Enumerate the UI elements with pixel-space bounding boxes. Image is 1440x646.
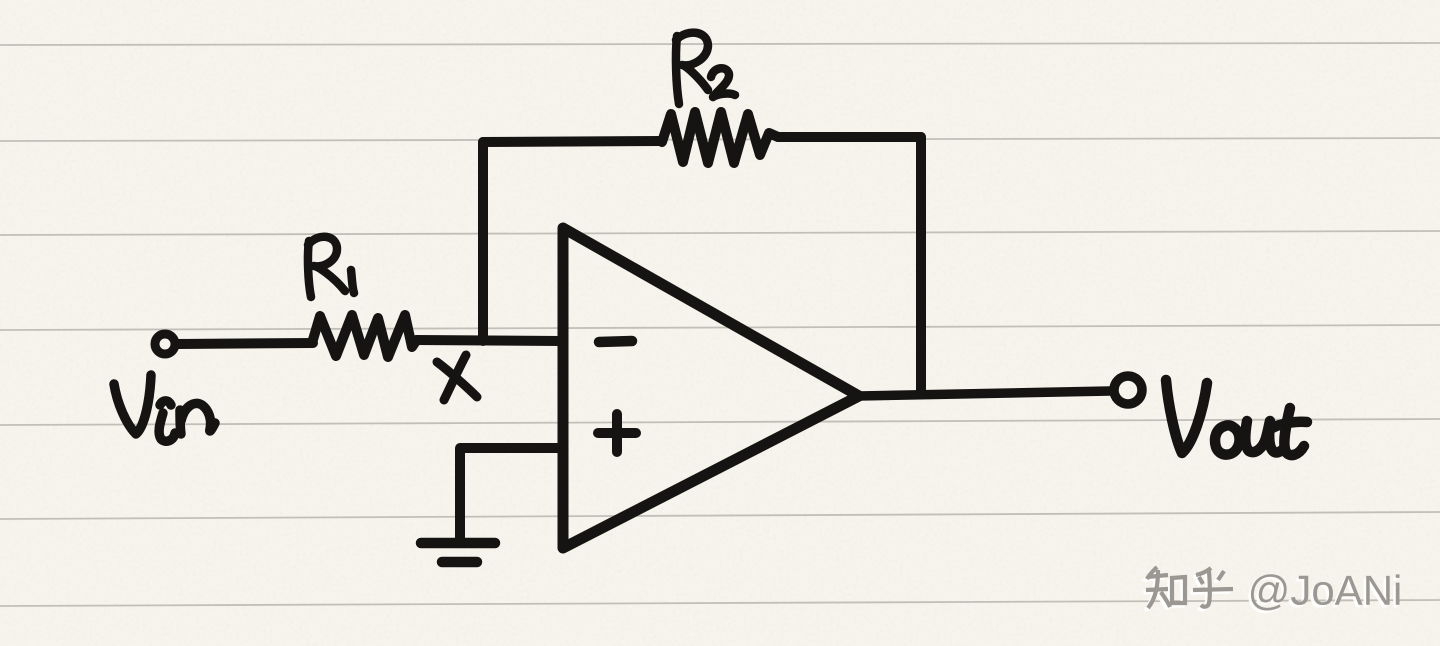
resistor R1 — [312, 315, 416, 357]
svg-text:@JoANi: @JoANi — [1248, 567, 1403, 614]
output terminal Vout — [1114, 376, 1142, 404]
wire output — [859, 391, 1110, 396]
minus sign inverting input — [599, 341, 632, 342]
plus sign non-inverting input — [598, 414, 636, 452]
ground — [421, 543, 495, 562]
wire non-inverting input — [460, 448, 563, 540]
watermark 知乎 @JoANi — [1143, 567, 1402, 617]
wire R2 to right corner — [778, 132, 921, 142]
label Vout — [1166, 380, 1307, 455]
input terminal Vin — [155, 334, 175, 354]
wire R1 to inverting input — [416, 340, 560, 341]
label R1 — [308, 237, 354, 297]
node X junction — [478, 336, 488, 346]
wire input to R1 — [178, 343, 313, 344]
label R2 — [676, 33, 735, 104]
op-amp U1 — [563, 228, 859, 548]
label Vin — [114, 375, 215, 441]
resistor R2 — [662, 112, 778, 163]
wire feedback top — [483, 141, 662, 142]
label node X — [437, 355, 477, 400]
wire feedback right vertical — [916, 137, 926, 392]
wire feedback left vertical — [478, 142, 488, 339]
